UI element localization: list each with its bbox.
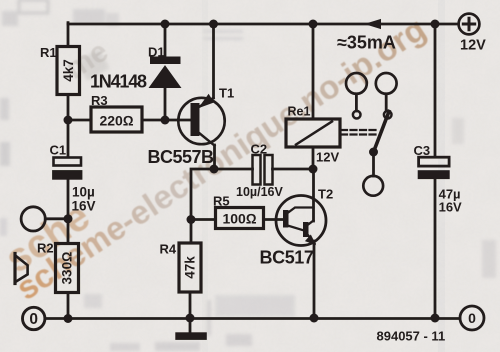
svg-text:10µ/16V: 10µ/16V: [236, 185, 283, 199]
svg-text:0: 0: [29, 311, 38, 328]
svg-text:220Ω: 220Ω: [99, 113, 133, 129]
svg-text:1N4148: 1N4148: [90, 72, 147, 92]
svg-text:330Ω: 330Ω: [60, 252, 75, 285]
svg-text:47k: 47k: [183, 256, 198, 279]
svg-text:≈35mA: ≈35mA: [337, 33, 396, 53]
svg-text:R5: R5: [213, 194, 230, 209]
svg-text:R3: R3: [91, 93, 108, 108]
svg-text:16V: 16V: [72, 199, 96, 214]
svg-text:4k7: 4k7: [61, 59, 76, 82]
svg-text:D1: D1: [148, 45, 165, 60]
svg-text:C3: C3: [414, 143, 431, 158]
svg-text:12V: 12V: [460, 38, 486, 54]
svg-text:12V: 12V: [316, 150, 339, 165]
svg-text:Re1: Re1: [288, 105, 311, 119]
svg-text:BC517: BC517: [260, 248, 314, 268]
svg-text:BC557B: BC557B: [148, 147, 215, 167]
svg-text:R2: R2: [37, 241, 54, 256]
svg-text:0: 0: [468, 310, 476, 326]
svg-text:894057 - 11: 894057 - 11: [377, 329, 446, 344]
svg-text:C1: C1: [50, 143, 67, 158]
svg-text:16V: 16V: [439, 200, 462, 215]
svg-text:R1: R1: [40, 45, 57, 60]
svg-text:T2: T2: [318, 187, 333, 202]
svg-text:10µ: 10µ: [72, 185, 95, 200]
svg-text:100Ω: 100Ω: [222, 211, 256, 227]
svg-text:C2: C2: [251, 142, 268, 157]
svg-text:T1: T1: [219, 86, 234, 101]
svg-text:R4: R4: [160, 242, 177, 257]
